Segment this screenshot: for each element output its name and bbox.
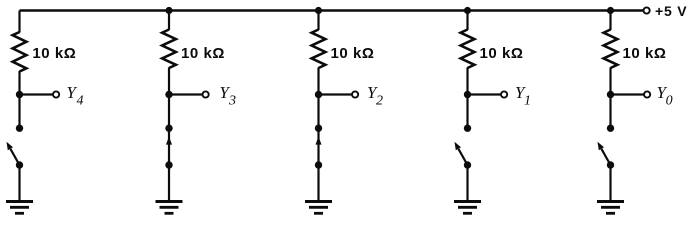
wire: switch to ground — [609, 165, 611, 201]
switch for Y4: top contact dot — [16, 125, 23, 132]
svg-text:1: 1 — [524, 94, 531, 109]
svg-text:+5 V: +5 V — [655, 3, 687, 19]
terminal Y1 (open circle output) — [501, 91, 507, 97]
wire: node Y0 to output terminal — [611, 93, 645, 95]
wire: resistor R2 to node Y3 — [168, 68, 170, 95]
svg-text:3: 3 — [228, 94, 236, 109]
wire: node Y3 to output terminal — [169, 93, 203, 95]
ground symbol under Y3 switch — [156, 202, 183, 214]
resistor R3 10 k&#8486; (zigzag) — [312, 30, 326, 69]
node Y0: junction dot — [607, 91, 614, 98]
wire: switch to ground — [168, 165, 170, 201]
terminal Y2 (open circle output) — [352, 91, 358, 97]
wire: switch to ground — [317, 165, 319, 201]
ground symbol under Y2 switch — [305, 202, 332, 214]
node: rail junction dot above R3 — [315, 7, 322, 14]
resistor R5 10 k&#8486; (zigzag) — [604, 30, 618, 69]
resistor R1 10 k&#8486; (zigzag) — [13, 32, 27, 72]
wire: +5V power rail (top horizontal bus) — [20, 9, 644, 11]
node: rail junction dot above R2 — [165, 7, 172, 14]
wire: rail down to resistor R1 — [18, 11, 20, 33]
svg-text:0: 0 — [666, 94, 673, 109]
wire: rail down to resistor R2 — [168, 11, 170, 31]
resistor R4 10 k&#8486; (zigzag) — [461, 30, 475, 69]
wire: switch to ground — [18, 165, 20, 201]
ground symbol under Y0 switch — [597, 202, 624, 214]
switch for Y2: closed lever with arrowhead — [316, 132, 322, 166]
wire: node Y1 down to switch top contact — [466, 95, 468, 129]
wire: node Y4 down to switch top contact — [18, 95, 20, 129]
wire: node Y3 down to switch top contact — [168, 95, 170, 129]
resistor R2 10 k&#8486; (zigzag) — [162, 30, 176, 69]
switch for Y2: bottom contact dot — [315, 161, 322, 168]
svg-text:10 kΩ: 10 kΩ — [623, 45, 667, 62]
ground symbol under Y1 switch — [454, 202, 481, 214]
wire: node Y2 down to switch top contact — [317, 95, 319, 129]
svg-text:10 kΩ: 10 kΩ — [331, 45, 375, 62]
node Y4: junction dot — [16, 91, 23, 98]
wire: rail down to resistor R5 — [609, 11, 611, 31]
node: rail junction dot above R5 — [607, 7, 614, 14]
node: rail junction dot above R4 — [464, 7, 471, 14]
switch for Y1: open lever with arrowhead — [455, 142, 468, 165]
svg-text:10 kΩ: 10 kΩ — [181, 45, 225, 62]
svg-text:4: 4 — [77, 94, 84, 109]
switch for Y3: top contact dot — [165, 125, 172, 132]
svg-text:10 kΩ: 10 kΩ — [480, 45, 524, 62]
switch for Y0: open lever with arrowhead — [598, 142, 611, 165]
switch for Y0: bottom contact dot — [607, 161, 614, 168]
node Y3: junction dot — [165, 91, 172, 98]
ground symbol under Y4 switch — [6, 202, 33, 214]
switch for Y1: bottom contact dot — [464, 161, 471, 168]
wire: resistor R1 to node Y4 — [18, 71, 20, 95]
svg-text:2: 2 — [376, 94, 383, 109]
wire: resistor R4 to node Y1 — [466, 68, 468, 95]
terminal: +5 V supply (open circle) — [644, 7, 650, 13]
switch for Y1: top contact dot — [464, 125, 471, 132]
wire: resistor R3 to node Y2 — [317, 68, 319, 95]
switch for Y3: closed lever with arrowhead — [166, 132, 172, 166]
switch for Y2: top contact dot — [315, 125, 322, 132]
wire: switch to ground — [466, 165, 468, 201]
wire: resistor R5 to node Y0 — [609, 68, 611, 95]
switch for Y0: top contact dot — [607, 125, 614, 132]
terminal Y3 (open circle output) — [203, 91, 209, 97]
switch for Y3: bottom contact dot — [165, 161, 172, 168]
node Y2: junction dot — [315, 91, 322, 98]
switch for Y4: open lever with arrowhead — [7, 142, 20, 165]
wire: node Y1 to output terminal — [468, 93, 502, 95]
wire: node Y2 to output terminal — [319, 93, 353, 95]
wire: node Y4 to output terminal — [20, 93, 54, 95]
wire: rail down to resistor R3 — [317, 11, 319, 31]
terminal Y0 (open circle output) — [644, 91, 650, 97]
wire: rail down to resistor R4 — [466, 11, 468, 31]
node Y1: junction dot — [464, 91, 471, 98]
switch for Y4: bottom contact dot — [16, 161, 23, 168]
terminal Y4 (open circle output) — [53, 91, 59, 97]
svg-text:10 kΩ: 10 kΩ — [32, 45, 76, 62]
wire: node Y0 down to switch top contact — [609, 95, 611, 129]
